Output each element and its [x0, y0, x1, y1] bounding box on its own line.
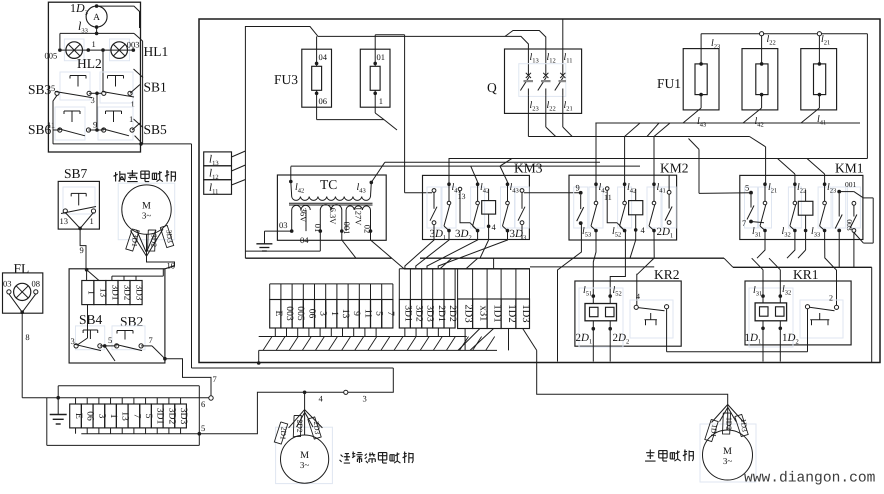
svg-text:001: 001 [845, 180, 857, 189]
svg-text:3: 3 [71, 336, 75, 346]
svg-text:5: 5 [374, 311, 385, 316]
svg-text:2D3: 2D3 [463, 304, 474, 322]
svg-text:1D1: 1D1 [709, 424, 719, 438]
svg-text:7: 7 [149, 335, 153, 345]
svg-text:5: 5 [51, 83, 55, 93]
svg-text:36V: 36V [299, 208, 309, 224]
svg-text:KR1: KR1 [793, 267, 819, 282]
svg-text:SB4: SB4 [79, 312, 103, 327]
svg-text:SB7: SB7 [64, 166, 88, 181]
svg-text:3D3: 3D3 [135, 285, 145, 301]
svg-text:FU3: FU3 [274, 72, 298, 87]
svg-text:3: 3 [363, 394, 367, 404]
svg-text:01: 01 [377, 52, 386, 62]
svg-text:003: 003 [127, 40, 140, 50]
svg-text:5: 5 [745, 183, 749, 193]
svg-text:1: 1 [379, 96, 383, 106]
svg-text:2D3: 2D3 [312, 421, 322, 435]
svg-text:2D1: 2D1 [436, 305, 447, 322]
svg-text:1: 1 [108, 414, 119, 419]
svg-text:1: 1 [86, 290, 96, 295]
svg-text:4: 4 [636, 292, 640, 301]
svg-text:5: 5 [108, 335, 112, 345]
svg-text:2D2: 2D2 [447, 305, 458, 322]
svg-text:003: 003 [845, 219, 854, 231]
svg-text:3~: 3~ [142, 211, 152, 221]
svg-text:HL1: HL1 [144, 44, 169, 59]
svg-text:SB6: SB6 [28, 122, 52, 137]
svg-text:001: 001 [342, 222, 352, 235]
svg-text:13: 13 [120, 411, 131, 421]
svg-text:6.3V: 6.3V [328, 208, 338, 226]
svg-text:9: 9 [80, 245, 84, 255]
svg-text:13: 13 [60, 216, 69, 226]
svg-text:E: E [273, 311, 284, 317]
svg-text:04: 04 [319, 52, 328, 62]
svg-text:9: 9 [351, 311, 362, 316]
svg-text:3D2: 3D2 [149, 234, 158, 247]
svg-text:KM3: KM3 [514, 161, 543, 176]
svg-text:3~: 3~ [723, 456, 733, 466]
svg-text:03: 03 [279, 220, 288, 230]
svg-text:1: 1 [329, 311, 340, 316]
svg-text:KM1: KM1 [835, 161, 864, 176]
svg-text:3: 3 [318, 311, 329, 316]
svg-text:SB5: SB5 [144, 122, 168, 137]
svg-text:1D3: 1D3 [520, 304, 531, 322]
svg-text:HL2: HL2 [77, 56, 102, 71]
svg-text:2D1: 2D1 [278, 426, 288, 440]
svg-text:1: 1 [129, 114, 133, 124]
svg-text:2: 2 [829, 294, 833, 303]
svg-text:E: E [73, 413, 84, 419]
svg-text:FL: FL [14, 261, 30, 276]
svg-text:3D1: 3D1 [155, 408, 166, 425]
svg-text:5: 5 [143, 414, 154, 419]
svg-text:SB2: SB2 [120, 314, 143, 329]
svg-text:9: 9 [576, 183, 580, 193]
svg-text:SB1: SB1 [144, 80, 167, 95]
svg-text:11: 11 [362, 309, 373, 318]
svg-text:13: 13 [458, 192, 466, 201]
svg-text:3: 3 [96, 414, 107, 419]
svg-text:3D2: 3D2 [166, 408, 177, 425]
svg-text:06: 06 [306, 309, 317, 319]
svg-text:3D2: 3D2 [414, 305, 425, 322]
svg-text:2D2: 2D2 [295, 419, 304, 432]
svg-text:SB3: SB3 [28, 82, 52, 97]
svg-text:3D3: 3D3 [425, 305, 436, 322]
svg-text:1: 1 [92, 39, 96, 49]
svg-text:13: 13 [340, 309, 351, 319]
svg-text:7: 7 [742, 218, 746, 228]
svg-text:1: 1 [90, 216, 94, 226]
svg-text:7: 7 [213, 374, 217, 384]
svg-text:6: 6 [201, 399, 205, 409]
svg-text:9: 9 [93, 120, 97, 130]
svg-text:03: 03 [3, 279, 12, 289]
svg-text:01: 01 [313, 224, 323, 233]
svg-text:06: 06 [319, 96, 328, 106]
svg-text:Q: Q [487, 80, 497, 95]
svg-text:TC: TC [320, 177, 337, 192]
svg-text:1D3: 1D3 [739, 418, 749, 432]
svg-text:3D3: 3D3 [178, 408, 189, 425]
svg-text:3D1: 3D1 [402, 305, 413, 322]
svg-text:A: A [93, 13, 100, 23]
svg-text:13: 13 [98, 288, 108, 298]
svg-text:www.diangon.com: www.diangon.com [744, 471, 876, 487]
svg-text:127V: 127V [353, 207, 363, 227]
svg-text:3D1: 3D1 [130, 233, 140, 247]
svg-text:005: 005 [295, 306, 306, 321]
svg-text:1D2: 1D2 [724, 417, 733, 430]
svg-text:3D2: 3D2 [123, 285, 133, 301]
svg-text:5: 5 [201, 423, 205, 433]
svg-text:3D1: 3D1 [110, 285, 120, 301]
svg-text:005: 005 [45, 51, 58, 61]
svg-text:04: 04 [300, 235, 309, 245]
svg-text:003: 003 [284, 306, 295, 321]
svg-text:KR2: KR2 [654, 267, 680, 282]
svg-text:FU1: FU1 [657, 76, 681, 91]
svg-text:3D3: 3D3 [164, 229, 174, 243]
svg-text:11: 11 [604, 193, 612, 202]
svg-text:3~: 3~ [300, 460, 310, 470]
svg-text:7: 7 [385, 311, 396, 316]
svg-text:7: 7 [131, 414, 142, 419]
svg-text:08: 08 [32, 279, 41, 289]
svg-text:3: 3 [91, 95, 95, 105]
svg-text:KM2: KM2 [660, 161, 689, 176]
svg-text:8: 8 [25, 332, 29, 342]
svg-text:06: 06 [85, 411, 96, 421]
